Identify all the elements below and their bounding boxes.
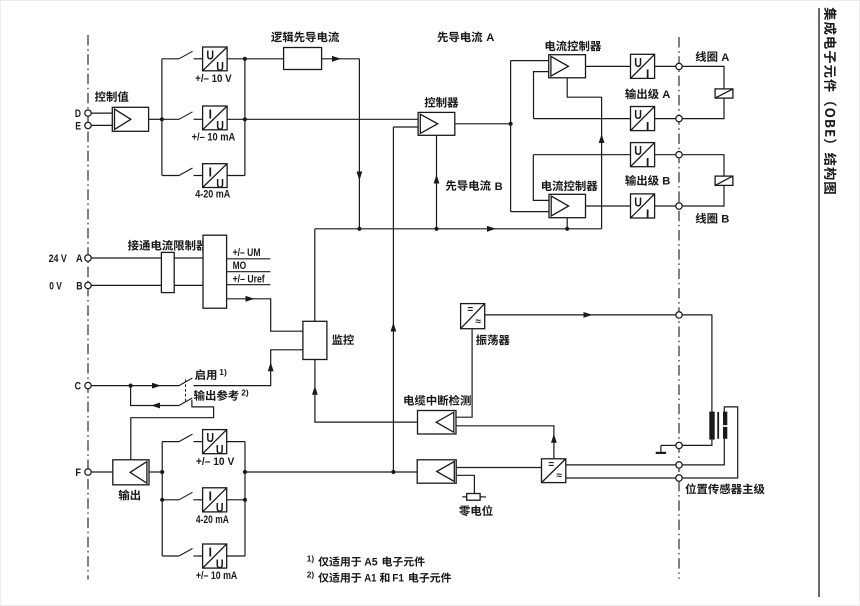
wire logic down	[358, 59, 360, 229]
wire X7-T4	[655, 205, 676, 207]
sidebar rule	[818, 8, 820, 597]
wire branchF2	[162, 499, 179, 501]
output stage X4 U/I	[631, 54, 655, 78]
wire CCB out	[586, 205, 631, 207]
svg-text:I: I	[208, 165, 212, 179]
svg-text:I: I	[646, 120, 650, 134]
svg-text:≈: ≈	[557, 471, 563, 482]
wire T7-secondary	[682, 439, 724, 465]
wire primary-T6	[682, 440, 712, 446]
svg-text:U: U	[634, 196, 642, 210]
inrush current limiter	[161, 252, 174, 292]
wire demod-T7	[566, 464, 676, 466]
wire coilA-T2	[682, 98, 724, 119]
svg-text:1): 1)	[307, 553, 315, 563]
node J3	[243, 117, 247, 121]
svg-text:B: B	[662, 176, 670, 188]
node J13	[391, 470, 395, 474]
monitor block 监控	[303, 321, 327, 359]
LVDT secondary winding a	[723, 412, 727, 426]
terminal D	[85, 110, 91, 116]
wire MO	[227, 271, 271, 273]
terminal B	[85, 282, 91, 288]
LVDT secondary winding b	[723, 427, 727, 439]
wire D	[91, 112, 112, 114]
bus left lower	[161, 442, 163, 556]
wire S4-monitor	[194, 350, 303, 386]
LVDT primary winding	[709, 412, 714, 440]
svg-text:+/– Uref: +/– Uref	[233, 273, 265, 285]
bus right lower	[244, 442, 246, 556]
svg-text:I: I	[208, 108, 212, 122]
wire J8-S5	[131, 386, 179, 406]
svg-text:+/– UM: +/– UM	[233, 247, 261, 259]
wire bus-monitor top	[314, 229, 316, 321]
wire T1-coilA	[682, 66, 724, 89]
svg-text:C: C	[75, 381, 81, 393]
label 电缆中断检测	[404, 395, 470, 406]
svg-text:I: I	[646, 68, 650, 82]
wire CCA bottom in	[567, 78, 601, 229]
output amplifier U3 输出	[113, 460, 149, 485]
node J1	[160, 117, 164, 121]
node J6	[565, 227, 569, 231]
svg-text:B: B	[721, 214, 729, 226]
wire main actual-value	[245, 471, 417, 473]
label 先导电流 A	[437, 31, 482, 42]
terminal E	[85, 122, 91, 128]
wire T6-ground	[661, 444, 676, 446]
svg-text:=: =	[467, 305, 473, 316]
label 线圈 B	[696, 213, 718, 224]
wire U3-bus	[149, 471, 162, 473]
label 接通电流限制器	[128, 240, 207, 251]
svg-text:B: B	[76, 280, 82, 292]
svg-text:U: U	[206, 431, 214, 445]
svg-text:I: I	[208, 546, 212, 560]
wire CCB feedback	[533, 155, 549, 201]
svg-text:+/– 10 mA: +/– 10 mA	[192, 131, 236, 143]
wire branch2	[162, 118, 179, 120]
converter X9 I/U	[203, 488, 227, 512]
wire X5-CCA feedback	[534, 118, 631, 120]
bus pilot-B horizontal	[315, 228, 602, 230]
svg-text:2): 2)	[307, 570, 315, 580]
wire branchF1	[162, 441, 179, 443]
switch S1	[179, 51, 193, 59]
wire X9 out	[227, 499, 245, 501]
converter X3 I/U	[203, 164, 228, 188]
wire F	[91, 471, 113, 473]
wire branch3	[162, 175, 179, 177]
wire CTRL feedback in	[393, 126, 418, 128]
wire S1-X1	[194, 58, 203, 60]
svg-text:A: A	[721, 52, 729, 64]
terminal T8 sensor sec b	[676, 475, 682, 481]
svg-text:A: A	[662, 89, 670, 101]
wire U5-demod top	[456, 426, 554, 459]
wire CCA feedback	[534, 72, 549, 119]
terminal T2 coil A-	[676, 115, 682, 121]
svg-text:E: E	[75, 121, 81, 133]
switch S6	[179, 434, 193, 442]
wire T5-primary	[682, 315, 712, 412]
switch S5 output-reference	[179, 398, 192, 406]
wire +/-UM	[227, 258, 271, 260]
output stage X7 U/I	[631, 194, 655, 218]
node J5	[434, 227, 438, 231]
controller U2 控制器	[418, 112, 455, 135]
node J12	[243, 498, 247, 502]
bus right upper	[244, 59, 246, 176]
converter X1 U/U	[203, 47, 228, 71]
svg-text:F1: F1	[392, 573, 404, 585]
wire S2-X2	[194, 118, 203, 120]
svg-text:2): 2)	[241, 388, 249, 398]
wire S7-X9	[194, 499, 203, 501]
wire +/-Uref	[227, 284, 271, 286]
wire X1 out	[227, 58, 245, 60]
node J7	[509, 122, 513, 126]
terminal T1 coil A+	[676, 63, 682, 69]
switch S2	[179, 112, 193, 120]
wire S8-X10	[194, 555, 203, 557]
wire U4-zeropot	[456, 475, 474, 493]
wire CTRL bottom	[436, 135, 438, 229]
wire to CCB	[511, 211, 549, 213]
label 电流控制器 B	[542, 180, 598, 191]
terminal C	[85, 382, 91, 388]
wire S5-output-amp	[131, 400, 214, 460]
label 控制值	[95, 91, 129, 102]
label 输出参考 2)	[194, 390, 239, 401]
svg-text:U: U	[634, 144, 642, 158]
converter X10 I/U	[203, 544, 227, 568]
svg-text:I: I	[646, 207, 650, 221]
label 位置传感器主级	[685, 483, 764, 494]
svg-text:≈: ≈	[475, 317, 481, 328]
wire J2-logic	[245, 58, 284, 60]
svg-text:U: U	[634, 108, 642, 122]
wire X3 out	[227, 175, 245, 177]
terminal T7 sensor sec a	[676, 462, 682, 468]
wire feedback vertical	[392, 127, 394, 472]
node J10	[160, 498, 164, 502]
label 电流控制器 A	[546, 40, 602, 51]
svg-text:24 V: 24 V	[49, 253, 68, 265]
wire T3-coilB	[682, 155, 724, 176]
current controller CCB	[549, 194, 586, 217]
label 输出	[119, 490, 140, 501]
output stage X5 U/I	[631, 107, 655, 131]
svg-text:+/– 10 V: +/– 10 V	[195, 73, 232, 85]
label 输出级 A	[625, 88, 659, 99]
zero potential resistor	[462, 496, 466, 498]
sidebar title 集成电子元件（OBE）结构图	[824, 7, 837, 193]
svg-text:D: D	[75, 108, 81, 120]
wire branchF3	[162, 555, 179, 557]
switch link dashed	[185, 380, 187, 404]
wire 0V-B	[91, 284, 203, 286]
wire PSU-monitor	[227, 299, 303, 331]
node J9	[160, 470, 164, 474]
wire X4-T1	[655, 65, 676, 67]
label 控制器	[425, 97, 459, 108]
demodulator DEMOD	[542, 459, 566, 483]
wire demod-T8	[566, 477, 676, 479]
wire CCA out	[586, 65, 631, 67]
wire X8 out	[227, 441, 245, 443]
terminal F	[85, 469, 91, 475]
oscillator OSC	[461, 304, 485, 329]
output stage X6 U/I	[631, 143, 655, 167]
converter X8 U/U	[203, 430, 227, 454]
svg-text:0 V: 0 V	[49, 280, 62, 292]
current controller CCA	[549, 55, 586, 78]
switch S7	[179, 492, 193, 500]
wire X10 out	[227, 555, 245, 557]
wire branchAB vertical	[510, 61, 512, 212]
wire U1 out	[149, 118, 162, 120]
cable-break detector U5	[418, 411, 457, 435]
svg-text:F: F	[75, 467, 81, 479]
wire J3-CTRL	[245, 118, 418, 120]
label 零电位	[459, 505, 492, 516]
solenoid coil A	[715, 89, 733, 98]
wire CCB bottom in	[566, 218, 568, 229]
svg-text:A: A	[486, 32, 494, 44]
svg-text:4-20 mA: 4-20 mA	[196, 514, 229, 526]
svg-text:U: U	[634, 56, 642, 70]
solenoid coil B	[715, 176, 733, 185]
label 线圈 A	[696, 51, 718, 62]
wire CTRL out	[455, 123, 511, 125]
amplifier U1 control-value	[112, 107, 148, 131]
wire coilB-T4	[682, 185, 724, 206]
svg-text:+/– 10 V: +/– 10 V	[196, 456, 235, 468]
svg-text:4-20 mA: 4-20 mA	[195, 189, 230, 201]
svg-text:+/– 10 mA: +/– 10 mA	[196, 570, 237, 582]
LVDT core	[717, 412, 719, 439]
terminal T4 coil B-	[676, 203, 682, 209]
switch S8	[179, 549, 193, 557]
label 输出级 B	[625, 175, 659, 186]
wire C	[91, 385, 179, 387]
bus left upper	[161, 59, 163, 176]
label 逻辑先导电流	[271, 31, 339, 42]
wire monitor bottom / cable-break out	[315, 360, 418, 423]
svg-text:MO: MO	[233, 260, 247, 272]
wire 24V-A	[91, 257, 203, 259]
node J4	[357, 227, 361, 231]
label 启用 1)	[195, 369, 216, 380]
svg-text:A5: A5	[364, 557, 378, 569]
svg-text:B: B	[495, 181, 503, 193]
label 振荡器	[476, 335, 510, 346]
wire X6-CCB feedback	[533, 154, 630, 156]
wire T8-secondary	[682, 407, 738, 478]
node J11	[243, 470, 247, 474]
wire T2-X5	[655, 118, 676, 120]
svg-text:U: U	[206, 49, 214, 63]
svg-text:U: U	[216, 60, 224, 74]
label 监控	[332, 334, 354, 345]
wire E	[91, 124, 112, 126]
wire branch1	[162, 58, 179, 60]
wire S3-X3	[194, 175, 203, 177]
ground	[656, 452, 666, 454]
terminal T6 sensor primary-	[676, 442, 682, 448]
wire OSC-T5	[485, 314, 676, 316]
node J2	[243, 57, 247, 61]
wire logic out	[322, 58, 360, 60]
svg-text:A: A	[76, 253, 83, 265]
label 先导电流 B	[446, 180, 491, 191]
buffer U4	[417, 460, 456, 483]
svg-text:A1: A1	[364, 573, 376, 585]
wire to CCA	[511, 60, 549, 62]
wire X2 out	[227, 118, 245, 120]
terminal T5 sensor primary+	[676, 312, 682, 318]
terminal T3 coil B+	[676, 152, 682, 158]
svg-text:1): 1)	[219, 367, 227, 377]
switch S4 enable	[179, 378, 192, 386]
valve-side boundary right (dash-dot)	[678, 37, 680, 579]
wire U4-demod	[456, 467, 541, 469]
node J8	[129, 384, 133, 388]
power supply block	[203, 235, 227, 308]
switch S3	[179, 168, 193, 176]
wire S6-X8	[194, 441, 203, 443]
enclosure boundary left (dash-dot)	[87, 35, 89, 580]
svg-text:=: =	[548, 460, 554, 471]
terminal A	[85, 255, 91, 261]
wire U5-osc	[456, 329, 472, 418]
block logic-pilot-current 逻辑先导电流	[284, 48, 322, 70]
svg-text:I: I	[208, 489, 212, 503]
wire X6-T3	[655, 154, 676, 156]
converter X2 I/U	[203, 106, 228, 130]
svg-text:I: I	[646, 156, 650, 170]
